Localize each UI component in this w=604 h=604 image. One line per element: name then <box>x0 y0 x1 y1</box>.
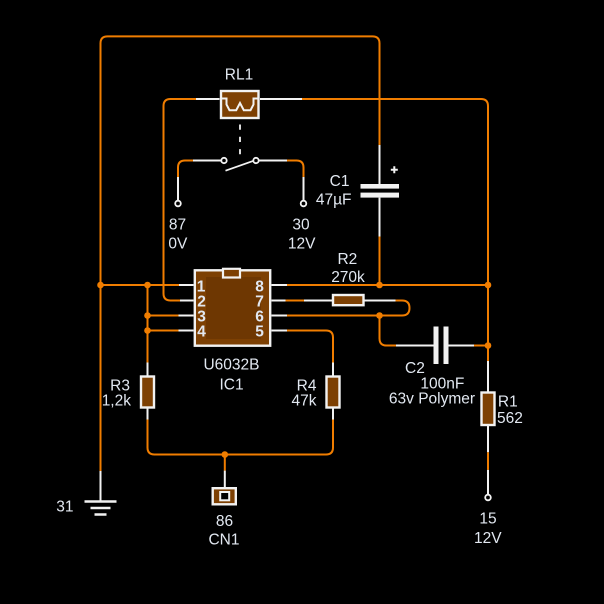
wire: pin 7 orange segment <box>286 300 305 302</box>
terminal 15 pad <box>485 495 491 501</box>
wire: pin 5 stub (white) <box>272 330 288 332</box>
svg-text:562: 562 <box>497 410 523 427</box>
junction node: C1 / pin8 row <box>376 282 383 289</box>
wire: junction to connector 86 (orange) <box>224 455 226 471</box>
svg-text:R1: R1 <box>498 393 518 410</box>
wire: right rail pin8 node to C2 node (orange) <box>487 285 489 346</box>
svg-text:C1: C1 <box>330 173 350 190</box>
wire: pin 3 spur (orange) <box>148 315 179 317</box>
wire: pin 2 stub (white) <box>180 300 194 302</box>
wire: R4 top lead (white) <box>332 363 334 378</box>
ground symbol <box>85 502 117 515</box>
capacitor C1 plates <box>361 184 400 189</box>
svg-text:270k: 270k <box>331 269 365 286</box>
switch contact right <box>253 158 258 163</box>
wire: pin 7 lead to R2 (white) <box>304 300 333 302</box>
svg-text:IC1: IC1 <box>219 376 243 393</box>
wire: C1 to pin8 node (orange) <box>379 237 381 286</box>
resistor R1 body <box>482 393 495 426</box>
wire: ground branch x=148 down to R3 (orange) <box>147 285 149 363</box>
wire: R3 bottom lead (white) <box>147 408 149 420</box>
wire: relay left net down to pin 2 (orange) <box>164 99 197 301</box>
wire: R2 right lead (white) <box>364 300 396 302</box>
svg-text:RL1: RL1 <box>225 66 253 83</box>
wire: pin 7 stub (white) <box>272 300 286 302</box>
svg-text:CN1: CN1 <box>208 532 239 549</box>
wire: R1 bottom lead to terminal 15 <box>487 425 489 452</box>
IC notch <box>223 269 240 278</box>
svg-text:47µF: 47µF <box>316 192 352 209</box>
switch lever <box>226 161 254 171</box>
svg-text:12V: 12V <box>474 530 502 547</box>
junction node: pin4 spur <box>144 327 151 334</box>
svg-text:87: 87 <box>169 216 186 233</box>
junction node: pin3 spur <box>144 312 151 319</box>
wire: pin 4 stub (white) <box>179 330 194 332</box>
svg-text:R2: R2 <box>337 251 357 268</box>
wire: pin6 node down to C2 (orange) <box>380 316 397 346</box>
IC inner shading <box>206 277 261 339</box>
junction node: pin6 / R2 / C2 <box>376 312 383 319</box>
wire: relay left lead (white) <box>196 98 220 100</box>
wire: pin 8 stub (white) <box>272 284 288 286</box>
relay actuator dashed link <box>239 125 241 157</box>
resistor R3 body <box>141 377 154 408</box>
relay RL1 coil symbol <box>221 99 260 111</box>
svg-text:47k: 47k <box>292 392 317 409</box>
resistor R4 body <box>327 377 340 408</box>
svg-text:C2: C2 <box>405 360 425 377</box>
relay RL1 coil box <box>221 91 259 118</box>
IC U6032B body <box>195 270 270 345</box>
wire: ground stem (white) <box>100 471 102 502</box>
wire: pin 1 row (orange from left rail) <box>101 284 180 286</box>
connector CN1 pad 86 <box>213 488 236 504</box>
wire: R2 U-turn to pin6 node (orange) <box>380 301 410 316</box>
wire: switch right to terminal 30 (white+orange) <box>259 160 287 162</box>
wire: pin 8 row to right rail (orange) <box>287 284 488 286</box>
wire: C2 right lead (white) <box>449 345 475 347</box>
resistor R2 body <box>333 295 364 305</box>
junction node: C2 / right rail <box>485 342 492 349</box>
switch contact left <box>221 158 226 163</box>
junction node: ground branch / pin1 row <box>144 282 151 289</box>
junction node: pin8 row / right rail <box>485 282 492 289</box>
svg-text:4: 4 <box>197 324 206 341</box>
C1 bottom lead (white) <box>379 198 381 237</box>
wire: C1 top lead (white) <box>379 145 381 184</box>
terminal 30 pad <box>301 201 307 207</box>
wire: pin 6 row (orange) <box>287 315 380 317</box>
junction node: left rail / pin1 <box>97 282 104 289</box>
svg-text:31: 31 <box>56 498 73 515</box>
svg-text:0V: 0V <box>168 236 188 253</box>
wire: switch left to terminal 87 (white+orange) <box>193 160 221 162</box>
capacitor C2 plates <box>434 327 439 365</box>
svg-text:12V: 12V <box>288 236 316 253</box>
wire: relay right net to right rail (orange) <box>302 99 488 285</box>
svg-text:15: 15 <box>479 511 496 528</box>
wire: C2 left lead (white) <box>396 345 434 347</box>
terminal 87 pad <box>175 201 181 207</box>
junction node: bottom net / CN1 <box>222 451 229 458</box>
C1 plus sign <box>391 166 398 173</box>
wire: pin 3 stub (white) <box>179 315 194 317</box>
wire: relay right lead (white) <box>260 98 302 100</box>
wire: R4 bottom lead (white) <box>332 408 334 420</box>
svg-text:30: 30 <box>292 216 310 233</box>
wire: pin 1 stub (white) <box>179 284 194 286</box>
wire: R3 top lead (white) <box>147 363 149 378</box>
svg-text:U6032B: U6032B <box>203 357 259 374</box>
wire: pin 4 spur (orange) <box>148 330 179 332</box>
wire: pin 5 to R4 (orange) <box>287 331 333 363</box>
svg-text:86: 86 <box>216 513 233 530</box>
svg-text:1,2k: 1,2k <box>102 392 132 409</box>
wire: connector 86 lead (white) <box>224 471 226 487</box>
svg-text:5: 5 <box>255 324 264 341</box>
wire: pin 6 stub (white) <box>272 315 288 317</box>
wire: C2 to right rail (orange) <box>474 345 488 347</box>
wire: R1 top lead (orange then white) <box>487 346 489 362</box>
wire: outer left rail + top rail (orange) <box>101 36 380 471</box>
wire: bottom net R4 to R3 (orange) <box>148 420 334 455</box>
svg-text:63v Polymer: 63v Polymer <box>389 391 475 408</box>
